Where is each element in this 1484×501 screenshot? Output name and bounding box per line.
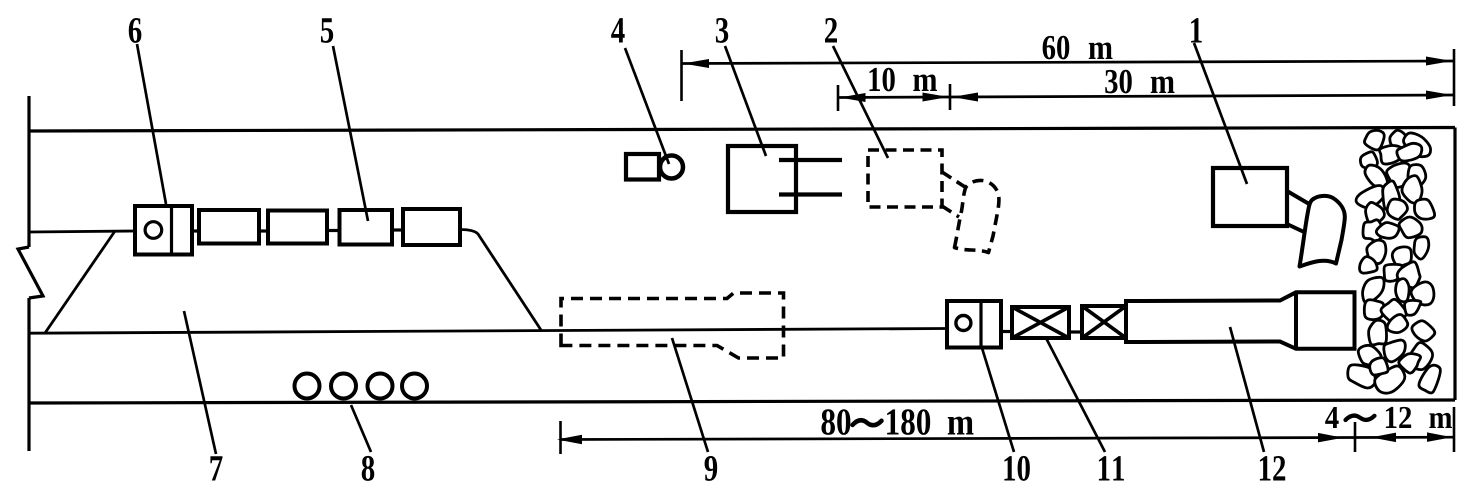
leader line for label 9 — [672, 338, 708, 452]
left wall upper segment — [27, 96, 30, 247]
item 10 locomotive at face: cab square — [947, 301, 1001, 348]
item 4 fan circle — [660, 156, 683, 179]
item 1 working loader body — [1213, 168, 1287, 226]
dimension 10 m: extension ticks — [837, 85, 840, 111]
label 4 — [611, 18, 624, 42]
dimension 80~180 m: extension ticks — [559, 421, 562, 454]
item 2 loader arm upper (dashed) — [942, 172, 965, 187]
tunnel roof wall line — [29, 128, 1455, 132]
item 2 loader bucket (dashed) — [955, 180, 999, 252]
item 9 outline of future train position (dash-dot rectangle) — [561, 293, 784, 358]
dimension 4~12 m line — [1356, 436, 1454, 439]
item 2 standby loader (dashed) body — [868, 150, 942, 207]
dimension 10 m line — [838, 96, 950, 99]
label 2 — [825, 18, 837, 42]
siding right turnout curve and slant — [460, 230, 541, 331]
coupler 11a to 11b — [1069, 330, 1082, 333]
muck pile of blasted rock at tunnel face — [1348, 130, 1441, 393]
dimension 80~180 m text — [821, 409, 850, 435]
label 12 — [1260, 456, 1285, 480]
coupler 10 to 11 — [1001, 330, 1012, 333]
leader line for label 12 — [1230, 327, 1264, 452]
main track line — [29, 329, 946, 334]
leader line for label 6 — [137, 44, 166, 204]
coupler car1-car2 — [259, 229, 268, 232]
leader line for label 1 — [1194, 43, 1247, 184]
tunnel face right wall — [1453, 128, 1456, 401]
item 3 drill jumbo body — [728, 146, 796, 212]
leader line for label 3 — [725, 46, 766, 156]
siding left turnout slant — [45, 231, 115, 333]
item 11 mine car with cross 1 — [1012, 307, 1069, 338]
item 11 mine car with cross 2 — [1082, 306, 1126, 338]
upper siding track left segment — [29, 231, 136, 232]
item 8 pipeline (four circles) — [295, 374, 428, 399]
tunnel floor wall line — [29, 400, 1455, 403]
dimension 4~12 m: extension tick at wall — [1453, 407, 1456, 452]
label 11 — [1099, 456, 1124, 480]
label 7 — [210, 456, 222, 480]
dimension 4~12 m text — [1325, 407, 1338, 428]
item 5 mine car 2 — [268, 211, 327, 244]
label 8 — [362, 456, 375, 481]
item 3 drill boom lower — [779, 192, 842, 196]
leader line for label 10 — [982, 348, 1014, 452]
label 9 — [705, 456, 718, 481]
item 5 mine car 4 — [403, 209, 460, 245]
label 6 — [129, 18, 142, 43]
label 10 — [1004, 456, 1029, 481]
dimension 60 m: extension ticks — [680, 50, 683, 101]
label 5 — [321, 18, 333, 43]
item 4 ventilation fan: casing rect — [626, 154, 659, 180]
item 12 head section divider — [1294, 292, 1298, 349]
dimension 60 m text — [1043, 36, 1070, 60]
item 2 loader arm lower (dashed) — [942, 206, 959, 217]
leader line for label 4 — [625, 48, 669, 164]
coupler loco to car 1 — [192, 229, 199, 232]
item 5 mine car 3 — [340, 210, 393, 245]
dimension 30 m text — [1105, 70, 1132, 94]
coupler car3-car4 — [392, 228, 403, 231]
leader line for label 8 — [351, 405, 371, 452]
item 12 belt conveyor / loader body — [1126, 292, 1355, 349]
item 3 drill boom upper — [779, 158, 842, 162]
dimension 10 m text — [869, 68, 894, 92]
label 3 — [716, 18, 728, 43]
item 1 loader bucket — [1300, 196, 1345, 267]
leader line for label 11 — [1046, 338, 1105, 452]
label 1 — [1191, 18, 1202, 42]
leader line for label 7 — [184, 311, 216, 454]
item 1 loader arm lower — [1288, 225, 1304, 233]
dimension 30 m line — [950, 95, 1454, 97]
dimension 60 m line — [682, 61, 1455, 64]
leader line for label 5 — [333, 46, 368, 221]
item 6 electric locomotive body — [135, 206, 192, 255]
leader line for label 2 — [833, 46, 888, 158]
coupler car2-car3 — [327, 229, 339, 232]
left wall break symbol — [18, 247, 43, 298]
item 5 mine car 1 — [199, 210, 259, 244]
left wall lower segment — [27, 298, 30, 451]
item 1 loader arm upper — [1287, 191, 1310, 205]
dimension 80~180 m line — [561, 438, 1357, 440]
